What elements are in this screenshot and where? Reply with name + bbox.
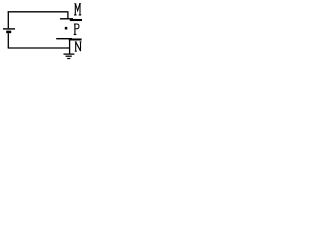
wire bottom horizontal [8,47,70,49]
label N [75,42,82,51]
node P dot [65,27,68,30]
battery wire upper [7,12,9,29]
capacitor plate M upper line [60,18,73,20]
ground line 1 (top, widest) [64,53,75,55]
wire top horizontal [8,11,69,13]
wire vertical stub from top wire to plate M [67,12,69,19]
battery wire lower [7,33,9,48]
label P [74,24,79,35]
ground line 3 (bottom, shortest) [67,58,70,60]
battery short thick plate (-) [6,31,11,34]
wire stem from plate N down to ground [69,39,71,54]
ground line 2 (middle) [66,55,72,57]
capacitor plate M lower line [70,19,82,21]
capacitor plate N lower line [69,39,82,41]
label M [74,4,81,15]
battery long plate (+) [3,28,15,30]
capacitor plate N upper line [56,38,72,40]
